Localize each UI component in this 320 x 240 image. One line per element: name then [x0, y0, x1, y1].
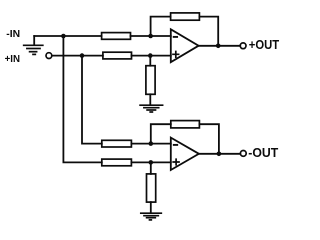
- svg-text:+IN: +IN: [5, 53, 20, 65]
- node junction J7: [149, 160, 154, 165]
- resistor R3: [102, 140, 132, 147]
- svg-text:+OUT: +OUT: [249, 38, 280, 52]
- wire: RF1 to output node: [199, 17, 218, 46]
- U1 minus mark: [174, 36, 177, 38]
- svg-text:-OUT: -OUT: [248, 146, 278, 160]
- node junction J1: [61, 34, 66, 39]
- terminal +IN circle: [46, 53, 52, 59]
- wire: U2 output: [199, 153, 240, 155]
- ground G3: [141, 213, 162, 220]
- resistor R6 (vertical): [147, 174, 156, 202]
- wire: feedback left riser: [151, 17, 171, 36]
- wire: J5 down to R5: [149, 56, 151, 66]
- resistor RF2 (feedback): [171, 121, 200, 128]
- ground G1 (input ground): [24, 36, 43, 54]
- wire: bus V1 (-IN rail down to lower stage): [63, 36, 101, 162]
- node junction J3 (output node): [216, 44, 221, 49]
- resistor R2: [103, 52, 132, 59]
- wire: R1 to op-amp U1 inverting input: [131, 35, 171, 37]
- resistor R5 (vertical): [146, 66, 155, 95]
- node junction J5: [148, 53, 153, 58]
- wire: feedback 2 left riser: [151, 124, 171, 143]
- ground G2: [140, 105, 163, 112]
- wire: R4 to op-amp U2 non-inverting input: [131, 161, 170, 163]
- svg-text:-IN: -IN: [6, 28, 20, 40]
- node junction J6 (feedback tap): [149, 141, 154, 146]
- U2 plus mark: [173, 159, 179, 165]
- wire: U1 output: [199, 45, 241, 47]
- resistor R4: [102, 159, 132, 166]
- wire: R2 to op-amp U1 non-inverting input: [132, 55, 171, 57]
- resistor R1: [102, 33, 131, 40]
- wire: +IN terminal to R2: [52, 55, 103, 57]
- op-amp U2: [171, 138, 199, 170]
- wire: R5 to ground: [149, 94, 151, 104]
- wire: R3 to op-amp U2 inverting input: [131, 143, 170, 145]
- op-amp U1: [171, 29, 199, 62]
- U2 minus mark: [174, 144, 177, 146]
- wire: RF2 to output node: [199, 124, 219, 154]
- terminal -OUT circle: [240, 151, 246, 157]
- U1 plus mark: [173, 52, 179, 58]
- wire: bus V2 (+IN rail down to lower stage): [82, 56, 102, 144]
- wire: J7 down to R6: [150, 162, 152, 174]
- node junction J4: [80, 53, 85, 58]
- node junction J8 (output node): [217, 152, 222, 157]
- terminal +OUT circle: [240, 43, 246, 49]
- node junction J2 (feedback tap): [148, 34, 153, 39]
- wire: R6 to ground: [150, 202, 152, 213]
- resistor RF1 (feedback): [171, 13, 200, 20]
- wire: ground to R1 (inverting input rail): [34, 35, 101, 37]
